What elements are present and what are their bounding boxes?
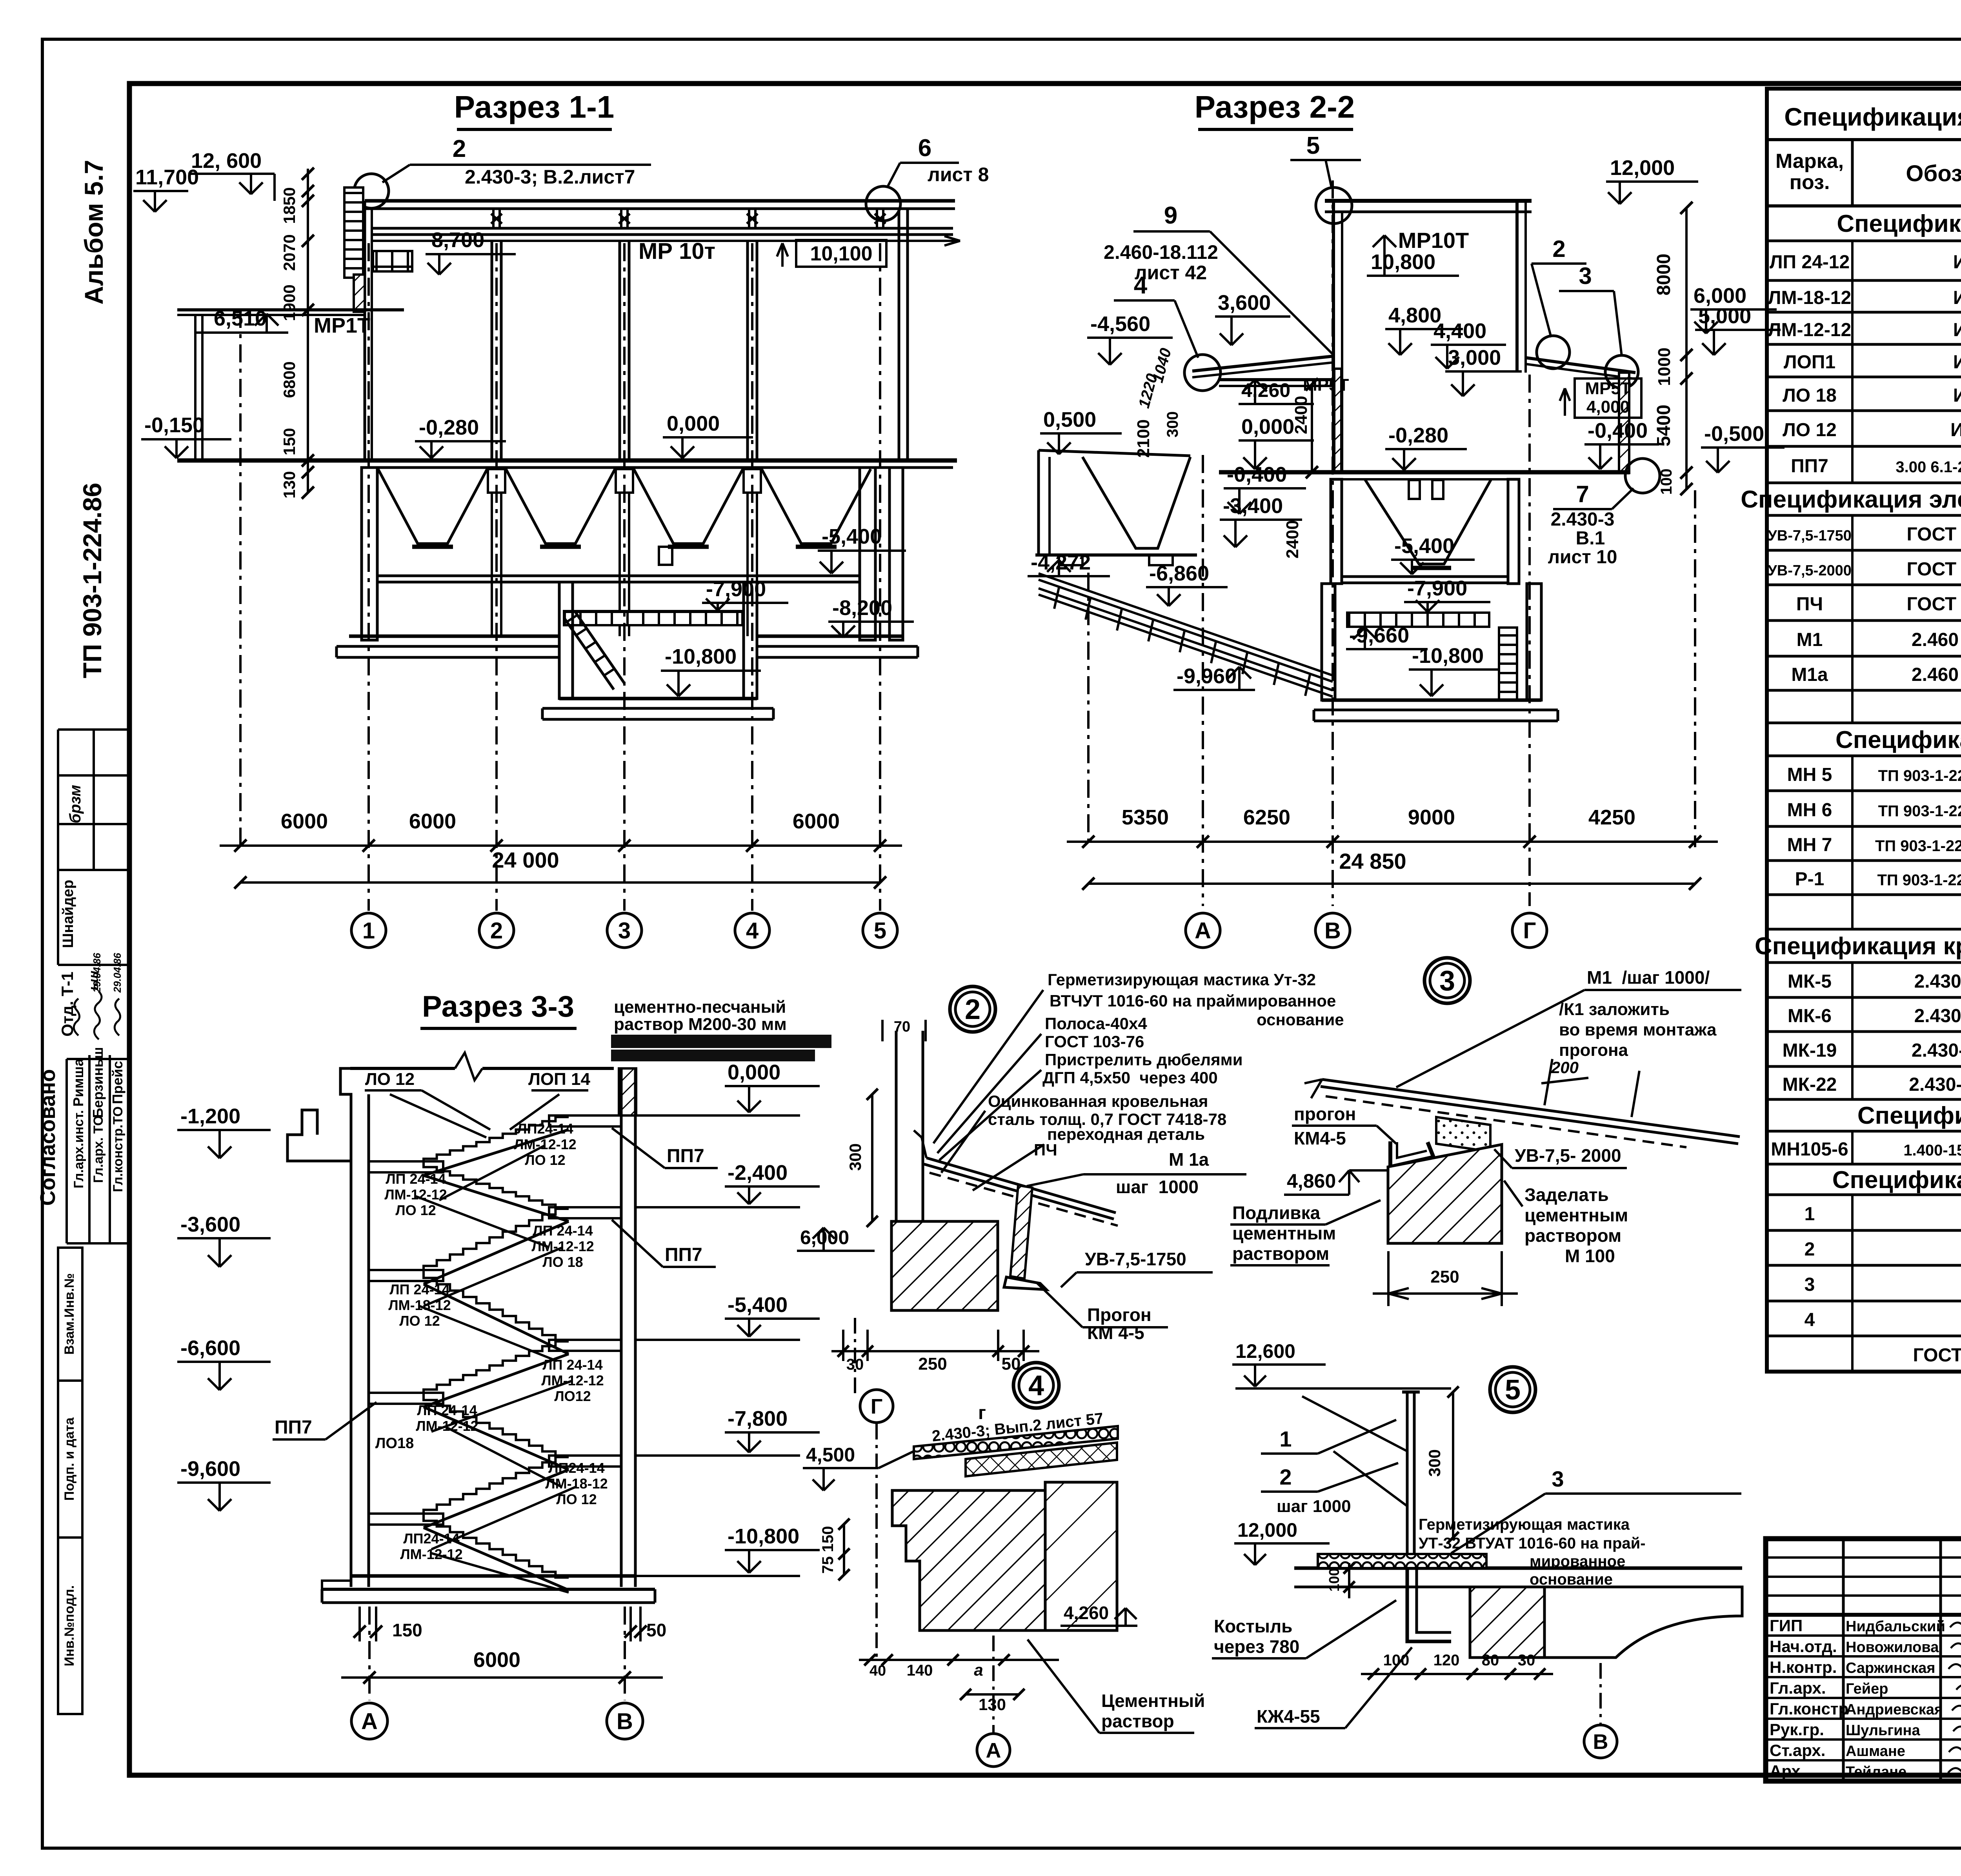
svg-text:ГИП: ГИП [1770, 1616, 1803, 1635]
svg-text:-5,400: -5,400 [1394, 534, 1454, 558]
node 5 dim 300 [1425, 1387, 1459, 1543]
svg-text:2.430-3; Вып.3: 2.430-3; Вып.3 [1914, 1006, 1961, 1026]
svg-text:1000: 1000 [1655, 348, 1674, 386]
svg-text:2070: 2070 [280, 234, 298, 271]
svg-text:Спецификация элементов на асбе: Спецификация элементов на асбестоцементн… [1741, 486, 1961, 513]
svg-text:ПП7: ПП7 [667, 1146, 704, 1166]
elevation -10,800 sec1 [661, 645, 761, 696]
svg-text:Гл.констр: Гл.констр [1770, 1699, 1848, 1718]
svg-text:ГОСТ 16233 -77*: ГОСТ 16233 -77* [1907, 559, 1961, 580]
section 3-3 stair flights and landings [369, 1115, 621, 1590]
svg-text:МР1Т: МР1Т [314, 314, 370, 337]
node 4 axis G bubble [860, 1390, 893, 1423]
node 2 label progon KM4-5 [1037, 1283, 1168, 1343]
svg-text:12,000: 12,000 [1237, 1519, 1297, 1541]
svg-text:30: 30 [1518, 1652, 1535, 1669]
node callout 6 on roof [866, 135, 989, 221]
elevation 0,000 sec2 [1239, 415, 1314, 469]
section 1-1 pit walls [559, 582, 573, 699]
svg-text:УВ-7,5-1750: УВ-7,5-1750 [1768, 528, 1852, 544]
svg-text:2400: 2400 [1283, 520, 1302, 559]
svg-text:5: 5 [1306, 132, 1320, 159]
svg-text:Разрез 1-1: Разрез 1-1 [454, 89, 615, 124]
node 5 bottom dims 100 120 80 30 [1361, 1652, 1553, 1679]
elevation -7,800 sec3 [635, 1407, 820, 1456]
node 3 labels M1 [1396, 967, 1741, 1087]
svg-text:5350: 5350 [1122, 806, 1169, 829]
callout PP7 upper right [612, 1128, 718, 1168]
svg-text:ИИ-65: ИИ-65 [1953, 287, 1961, 308]
section 2-2 basement railing [1347, 613, 1489, 627]
section 1-1 basement bottom slab [337, 636, 918, 657]
node 4 elevation 4,500 [803, 1444, 879, 1490]
elevation 8,700 [426, 228, 516, 275]
svg-text:Римша: Римша [70, 1058, 86, 1107]
svg-text:ИИ- 65: ИИ- 65 [1950, 420, 1961, 440]
svg-text:3: 3 [1805, 1274, 1815, 1295]
svg-text:-5,400: -5,400 [822, 525, 882, 548]
svg-text:КМ 4-5: КМ 4-5 [1087, 1323, 1144, 1343]
svg-text:-9,600: -9,600 [180, 1457, 240, 1481]
node 2 elevation 6,000 [797, 1226, 875, 1251]
grid bubble 2 [479, 913, 514, 948]
section 1-1 total dimension 24000 [234, 848, 886, 889]
callout PP7 left [273, 1402, 377, 1439]
svg-text:ЛП 24-14: ЛП 24-14 [386, 1171, 446, 1187]
section 2-2 total dimension 24850 [1082, 849, 1701, 890]
svg-text:ЛО 12: ЛО 12 [365, 1070, 415, 1089]
node callout 5 tower [1290, 132, 1361, 224]
node 4 inner column sparse hatch [1045, 1482, 1117, 1630]
svg-text:1850: 1850 [280, 187, 298, 224]
svg-text:2.430-3; В.2.лист7: 2.430-3; В.2.лист7 [465, 166, 635, 188]
svg-text:-5,400: -5,400 [728, 1293, 788, 1317]
svg-text:0,000: 0,000 [728, 1061, 780, 1084]
svg-text:Рук.гр.: Рук.гр. [1770, 1720, 1824, 1739]
svg-text:основание: основание [1530, 1571, 1613, 1588]
svg-text:300: 300 [1164, 411, 1181, 438]
section 2-2 tower left wall [1332, 201, 1335, 472]
node 5 slab wedge right [1544, 1587, 1742, 1658]
section 3-3 dim 150 [353, 1607, 422, 1641]
svg-text:МН 5: МН 5 [1787, 764, 1832, 785]
elevation -3,600 [177, 1213, 271, 1267]
svg-text:Нидбальский: Нидбальский [1846, 1618, 1945, 1635]
svg-text:поз.: поз. [1790, 171, 1830, 194]
svg-text:Гл.констр.ТО: Гл.констр.ТО [111, 1106, 126, 1192]
svg-text:-1,200: -1,200 [180, 1104, 240, 1128]
svg-text:-0,150: -0,150 [144, 413, 204, 437]
svg-text:250: 250 [918, 1354, 947, 1374]
node 3 sloped purlin [1304, 1079, 1740, 1147]
elevation -0,400 left [1224, 463, 1306, 514]
node 2 bottom dims 30 250 50 [831, 1330, 1039, 1374]
section 3-3 grid centerlines [369, 1607, 625, 1700]
svg-text:переходная деталь: переходная деталь [1047, 1125, 1205, 1143]
svg-text:-0,400: -0,400 [1588, 419, 1648, 442]
svg-text:0,000: 0,000 [667, 412, 720, 435]
section 1-1 interior columns [492, 241, 501, 460]
svg-text:3,000: 3,000 [1448, 346, 1501, 369]
elevation 0,000 sec3 [635, 1061, 820, 1115]
svg-text:ТП 903-1-224.86 КЖ 4.И.1.5: ТП 903-1-224.86 КЖ 4.И.1.5 [1875, 837, 1961, 855]
elevation -2,400 sec3 [635, 1161, 820, 1207]
svg-text:75: 75 [819, 1556, 837, 1574]
elevation -9,960 [1173, 664, 1255, 690]
section 1-1 roof bottom chord [371, 227, 953, 230]
svg-text:ЛОП1: ЛОП1 [1784, 352, 1835, 373]
svg-text:ьш: ьш [86, 971, 101, 990]
svg-text:4,860: 4,860 [1287, 1170, 1336, 1192]
node 5 marker [1490, 1367, 1535, 1412]
svg-text:лист 8: лист 8 [928, 164, 989, 186]
svg-text:В: В [617, 1709, 633, 1734]
grid bubble 4 [735, 913, 769, 948]
section 1-1 roof purlin line [371, 240, 960, 242]
svg-text:ИИ-65: ИИ-65 [1953, 252, 1961, 273]
svg-text:2.460 -1; Вып.1: 2.460 -1; Вып.1 [1912, 630, 1961, 650]
svg-text:МК-5: МК-5 [1788, 971, 1832, 992]
node 4 cement note [1028, 1639, 1205, 1733]
node 2 purlin strut [1004, 1185, 1046, 1290]
title block [1766, 1539, 1961, 1781]
elevation -7,900 sec2 [1404, 577, 1490, 612]
svg-text:ЛО 12: ЛО 12 [525, 1152, 565, 1168]
svg-text:ЛМ-18-12: ЛМ-18-12 [1768, 287, 1851, 308]
svg-text:-0,400: -0,400 [1227, 463, 1287, 486]
node 2 dim 70 top [882, 1019, 926, 1041]
svg-text:5: 5 [1505, 1374, 1521, 1406]
svg-text:Саржинская: Саржинская [1846, 1660, 1935, 1676]
svg-text:9: 9 [1164, 202, 1177, 229]
section 2-2 pit walls [1322, 584, 1335, 700]
node 3 label UV-7,5-2000 [1494, 1145, 1627, 1168]
svg-text:ГОСТ 16233 -77*: ГОСТ 16233 -77* [1907, 594, 1961, 615]
node 4 masonry big hatch [892, 1490, 1045, 1630]
svg-text:Ст.арх.: Ст.арх. [1770, 1741, 1825, 1760]
section 3-3 left parapet [287, 1068, 351, 1161]
node callout 7 label [1548, 481, 1634, 568]
svg-text:2.460-18.112: 2.460-18.112 [1104, 241, 1218, 263]
svg-text:2: 2 [453, 135, 466, 162]
svg-text:300: 300 [846, 1143, 864, 1171]
grid bubble B [1315, 913, 1350, 948]
elevation -10,800 sec2 [1409, 644, 1510, 696]
svg-text:раствор М200-30 мм: раствор М200-30 мм [614, 1015, 787, 1034]
svg-text:Ашмане: Ашмане [1846, 1743, 1905, 1760]
node 3 marker [1424, 958, 1470, 1003]
section 2-2 right roof slope [1526, 358, 1635, 373]
specification table [1767, 89, 1961, 1372]
elevation 0,500 [1040, 408, 1122, 454]
node 5 level line 12600 [1235, 1387, 1451, 1390]
tag LO 12 top [365, 1070, 490, 1130]
grid bubble A [1186, 913, 1220, 948]
svg-text:а: а [974, 1661, 983, 1679]
elevation -10,800 sec3 [635, 1525, 820, 1576]
elevation -3,400 [1220, 494, 1302, 547]
svg-text:70: 70 [894, 1019, 910, 1035]
node 4 slant leader [879, 1451, 914, 1468]
tag LOP 14 top [528, 1070, 590, 1090]
elevation 0,000 sec1 [663, 412, 753, 458]
svg-text:-2,400: -2,400 [728, 1161, 788, 1185]
svg-text:4250: 4250 [1588, 806, 1635, 829]
svg-text:6250: 6250 [1243, 806, 1290, 829]
node 4 membrane lines [892, 1439, 1118, 1490]
section 2-2 intermediate slab [1342, 575, 1508, 578]
node 3 elevation 4,860 [1284, 1170, 1388, 1195]
svg-text:А: А [361, 1709, 378, 1734]
svg-text:4: 4 [746, 918, 759, 943]
svg-text:200: 200 [1551, 1058, 1579, 1077]
svg-text:8,700: 8,700 [431, 228, 484, 252]
svg-text:ГОСТ 23279-85: ГОСТ 23279-85 [1913, 1345, 1961, 1366]
svg-text:МР5Т: МР5Т [1585, 379, 1631, 398]
section 2-2 grid centerlines [1088, 375, 1695, 906]
elevation -9,660 [1346, 624, 1428, 649]
section 1-1 dimension line 6000s [220, 810, 902, 852]
svg-text:300: 300 [1425, 1449, 1444, 1477]
svg-text:ПЧ: ПЧ [1796, 594, 1823, 615]
svg-text:5,000: 5,000 [1698, 304, 1751, 328]
section 1-1 basement columns [492, 493, 501, 636]
svg-text:Шнайдер: Шнайдер [60, 880, 76, 948]
svg-text:ЛОП 14: ЛОП 14 [528, 1070, 590, 1089]
node 5 vertical dim 100 [1326, 1563, 1355, 1598]
svg-text:Разрез 2-2: Разрез 2-2 [1195, 89, 1355, 124]
svg-text:2.430-3: 2.430-3 [1551, 509, 1615, 530]
margin signature squiggles [74, 992, 120, 1039]
svg-text:А: А [1195, 918, 1211, 943]
section 1-1 left dimension chain [280, 167, 314, 499]
svg-text:ГОСТ 103-76: ГОСТ 103-76 [1045, 1032, 1144, 1051]
svg-text:В: В [1593, 1730, 1608, 1754]
margin box Otd T-1 [58, 870, 129, 965]
svg-text:раствором: раствором [1524, 1225, 1621, 1246]
svg-text:ИИ-65: ИИ-65 [1953, 385, 1961, 406]
svg-text:УТ-32 ВТУАТ 1016-60 на прай-: УТ-32 ВТУАТ 1016-60 на прай- [1419, 1535, 1646, 1552]
svg-text:ДГП 4,5х50 через 400: ДГП 4,5х50 через 400 [1042, 1068, 1218, 1087]
svg-text:1900: 1900 [280, 284, 298, 321]
svg-text:0,000: 0,000 [1241, 415, 1294, 439]
elevation 11,700 [133, 166, 199, 212]
node 5 hatched wall [1470, 1587, 1544, 1658]
section 3-3 dim 6000 [341, 1648, 663, 1684]
elevation -7,900 sec1 [702, 577, 788, 610]
svg-text:В.1: В.1 [1576, 528, 1605, 549]
svg-text:12,600: 12,600 [1235, 1340, 1295, 1362]
svg-text:ЛП24-14: ЛП24-14 [403, 1530, 459, 1547]
section 1-1 grid centerlines [240, 243, 880, 911]
node 3 L-bracket [1390, 1141, 1433, 1167]
svg-text:12, 600: 12, 600 [191, 149, 262, 173]
section 2-2 dimension line [1067, 806, 1718, 848]
section 1-1 basement stair [564, 613, 624, 690]
svg-text:шаг 1000: шаг 1000 [1116, 1177, 1199, 1197]
svg-text:Нач.отд.: Нач.отд. [1770, 1637, 1837, 1656]
svg-text:ТП 903-1-224.86 КЖ4.и.1.4: ТП 903-1-224.86 КЖ4.и.1.4 [1878, 802, 1961, 820]
svg-text:100: 100 [1326, 1568, 1342, 1592]
svg-text:2.430-3; Вып.3: 2.430-3; Вып.3 [1912, 1040, 1961, 1061]
node callout 2 on roof [354, 135, 651, 208]
svg-text:Тейлане: Тейлане [1846, 1764, 1906, 1780]
svg-text:6: 6 [918, 135, 931, 162]
section 1-1 basement railing [564, 611, 742, 625]
svg-text:50: 50 [646, 1620, 666, 1640]
svg-text:3: 3 [618, 918, 631, 943]
svg-text:10,800: 10,800 [1371, 250, 1435, 274]
elevation -8,200 sec1 [828, 596, 914, 637]
elevation 6,000 sec2 [1690, 284, 1777, 333]
svg-text:-0,500: -0,500 [1704, 422, 1764, 446]
svg-text:ЛП 24-12: ЛП 24-12 [1770, 252, 1850, 273]
svg-text:5: 5 [874, 918, 886, 943]
svg-text:3: 3 [1552, 1467, 1564, 1491]
grid bubble 1 [351, 913, 386, 948]
section 3-3 hatched pier at top of wall B [619, 1068, 636, 1115]
svg-text:Согласовано: Согласовано [36, 1069, 60, 1206]
svg-text:ЛМ-12-12: ЛМ-12-12 [384, 1186, 447, 1203]
node ring 2 [1537, 336, 1570, 369]
grid bubble A sec3 [351, 1703, 387, 1739]
node 2 label M1a [1027, 1149, 1246, 1197]
section 1-1 roof posts [491, 209, 502, 228]
node 5 pebble strip [1318, 1554, 1486, 1568]
section 3-3 stair labels [514, 1121, 576, 1168]
svg-text:24 850: 24 850 [1339, 849, 1406, 873]
node 5 axis B bubble [1584, 1725, 1617, 1758]
svg-text:А: А [986, 1739, 1001, 1762]
node 2 vertical dim 300 [846, 1089, 878, 1227]
node 4 insulation cross-hatched band [966, 1443, 1117, 1476]
svg-text:2: 2 [965, 994, 980, 1025]
svg-text:М 100: М 100 [1565, 1246, 1615, 1266]
svg-text:ЛО18: ЛО18 [375, 1435, 414, 1452]
section 2-2 pit ladder [1499, 628, 1517, 700]
svg-text:Костыль: Костыль [1214, 1616, 1292, 1636]
svg-text:МН 7: МН 7 [1787, 835, 1832, 855]
svg-text:-3,400: -3,400 [1223, 494, 1283, 518]
svg-text:ЛП24-14: ЛП24-14 [548, 1460, 604, 1476]
grid bubble G [1512, 913, 1547, 948]
svg-text:2.430-3; Вып.3: 2.430-3; Вып.3 [1914, 971, 1961, 992]
svg-text:Гл.арх.инст.: Гл.арх.инст. [71, 1110, 86, 1188]
node 5 elevation 12,000 [1234, 1519, 1330, 1565]
svg-text:2.430-3; Вып.3: 2.430-3; Вып.3 [1909, 1074, 1961, 1095]
svg-text:Альбом 5.7: Альбом 5.7 [79, 160, 108, 304]
svg-text:цементно-песчаный: цементно-песчаный [614, 997, 786, 1017]
section 1-1 platform MP1T [177, 310, 404, 337]
svg-text:-10,800: -10,800 [1412, 644, 1484, 668]
elevation 12,000 [1606, 156, 1698, 204]
node 4 bottom dims [859, 1654, 1059, 1714]
node 3 label progon KM4-5 [1292, 1104, 1396, 1148]
node 5 leader 1 [1261, 1420, 1396, 1454]
section 1-1 ground floor slab [177, 459, 957, 463]
node 2 leader texts [933, 970, 1344, 1190]
section 2-2 platform MR5T [1219, 378, 1333, 381]
margin stamp grid [58, 730, 129, 870]
svg-text:Арх.: Арх. [1770, 1762, 1805, 1780]
section 2-2 tower right wall [1515, 201, 1519, 373]
svg-text:130: 130 [280, 471, 298, 499]
svg-text:ЛО 12: ЛО 12 [1783, 420, 1837, 440]
svg-text:ЛП 24-14: ЛП 24-14 [389, 1281, 449, 1297]
section 3-3 base slab [322, 1576, 655, 1603]
svg-text:ЛП24-14: ЛП24-14 [517, 1121, 573, 1137]
node callout 3 label [1559, 263, 1622, 356]
svg-text:Взам.Инв.№: Взам.Инв.№ [62, 1273, 77, 1355]
node 4 vertical dims 150 75 [819, 1519, 850, 1581]
svg-text:Разрез 3-3: Разрез 3-3 [422, 990, 574, 1023]
section 2-2 monitor roof slope [1192, 356, 1333, 371]
svg-text:-10,800: -10,800 [728, 1525, 799, 1548]
svg-text:МК-6: МК-6 [1788, 1006, 1832, 1026]
section 2-2 tower centerline left [1332, 180, 1334, 490]
svg-text:Гейер: Гейер [1846, 1681, 1888, 1697]
svg-text:ТП 903-1-224.86 КЖ4.И.1.6: ТП 903-1-224.86 КЖ4.И.1.6 [1877, 872, 1961, 889]
svg-text:2400: 2400 [1292, 396, 1311, 434]
node 5 leader 2 [1261, 1463, 1398, 1516]
svg-text:150: 150 [392, 1620, 422, 1640]
section 1-1 right wall column [899, 209, 908, 460]
svg-text:УВ-7,5- 2000: УВ-7,5- 2000 [1515, 1145, 1621, 1166]
elevation 12,600 [188, 149, 275, 194]
svg-text:Пристрелить дюбелями: Пристрелить дюбелями [1045, 1050, 1243, 1069]
section 2-2 inclined conveyor gallery [1039, 573, 1333, 697]
svg-text:ЛМ-12-12: ЛМ-12-12 [531, 1238, 594, 1254]
svg-text:3: 3 [1579, 263, 1592, 289]
svg-text:-7,800: -7,800 [728, 1407, 788, 1430]
section 1-1 intermediate slab [377, 575, 860, 577]
svg-text:ЛО 12: ЛО 12 [399, 1313, 440, 1329]
svg-text:ГОСТ 16233 -77*: ГОСТ 16233 -77* [1907, 524, 1961, 545]
node 3 label zadelat [1504, 1181, 1628, 1266]
node 2 marker [950, 986, 995, 1032]
svg-text:0,500: 0,500 [1043, 408, 1096, 431]
elevation 5,000 [1695, 304, 1781, 355]
svg-text:УВ-7,5-1750: УВ-7,5-1750 [1085, 1249, 1186, 1269]
svg-text:цементным: цементным [1524, 1205, 1628, 1225]
svg-text:Берзиньш: Берзиньш [90, 1047, 106, 1118]
svg-text:11,700: 11,700 [135, 166, 199, 189]
node 3 dim 250 [1373, 1251, 1518, 1306]
boxed label MR5T 4,000 [1560, 378, 1641, 418]
node 2 centerline [854, 1318, 856, 1396]
svg-text:2100: 2100 [1134, 419, 1153, 458]
svg-text:прогона: прогона [1559, 1041, 1628, 1060]
svg-text:4: 4 [1134, 272, 1148, 299]
svg-text:лист 10: лист 10 [1548, 547, 1617, 568]
svg-text:во время монтажа: во время монтажа [1559, 1020, 1717, 1039]
svg-text:250: 250 [1430, 1267, 1459, 1286]
elevation 6,510 [196, 307, 288, 333]
node 4 marker [1013, 1363, 1059, 1408]
svg-text:6,000: 6,000 [1694, 284, 1746, 308]
elevation -4,272 [1028, 551, 1110, 576]
svg-text:-4,560: -4,560 [1090, 312, 1150, 336]
node 5 elevation 12,600 [1232, 1340, 1326, 1387]
svg-text:4: 4 [1028, 1370, 1044, 1401]
svg-text:-6,860: -6,860 [1149, 562, 1209, 585]
section 1-1 wall ladder (hatched strip) [344, 187, 363, 278]
svg-text:ПП7: ПП7 [1791, 456, 1828, 477]
section 2-2 floor slab [1219, 470, 1630, 475]
node 4 axis A bubble [977, 1734, 1010, 1767]
node callout 2 label [1532, 236, 1586, 337]
svg-text:Гл.арх.: Гл.арх. [1770, 1679, 1826, 1697]
